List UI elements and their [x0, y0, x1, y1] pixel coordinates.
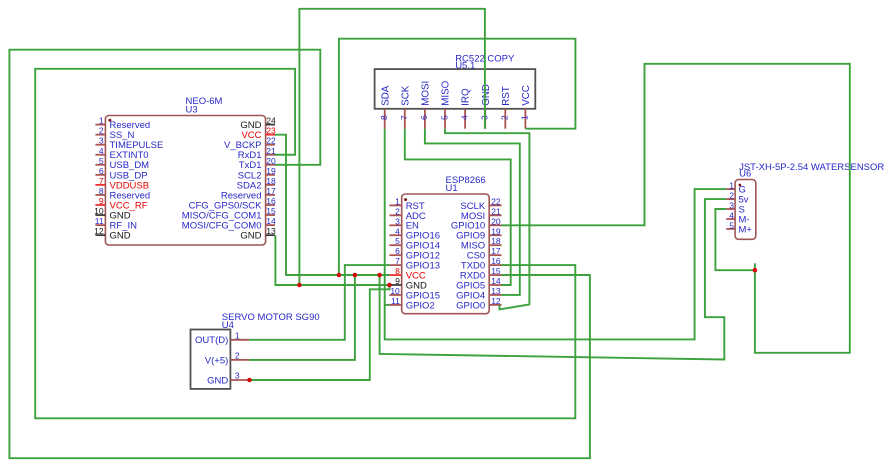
U5.1 pin 7 SCK — [399, 85, 411, 129]
svg-text:7: 7 — [399, 115, 409, 120]
svg-text:11: 11 — [391, 296, 400, 306]
junction VCC net RC522 branch — [337, 273, 342, 278]
svg-text:V(+5): V(+5) — [205, 355, 229, 366]
svg-text:12: 12 — [94, 226, 104, 236]
svg-text:4: 4 — [99, 146, 104, 156]
svg-text:1: 1 — [99, 116, 104, 126]
svg-text:9: 9 — [395, 276, 400, 286]
junction GND net at x299 — [297, 283, 302, 288]
svg-text:21: 21 — [491, 206, 501, 216]
U1 pin 1 RST — [389, 196, 424, 211]
U3 pin 15 MISO/CFG_COM1 — [182, 206, 276, 221]
svg-text:M+: M+ — [739, 224, 753, 235]
wire ESP8266 GPIO10 pin20 to JST S pin3 via right loop — [502, 64, 850, 353]
svg-text:GPIO2: GPIO2 — [406, 300, 435, 311]
U1 pin 14 GPIO5 — [456, 276, 501, 291]
svg-text:SDA: SDA — [380, 85, 391, 106]
U5.1 pin 2 RST — [500, 86, 512, 129]
svg-text:SERVO MOTOR SG90: SERVO MOTOR SG90 — [222, 312, 320, 323]
svg-text:5: 5 — [99, 156, 104, 166]
wire RC522 SDA pin8 to ESP8266 GPIO2 pin11 and JST G pin1 — [385, 129, 727, 340]
svg-text:2: 2 — [500, 115, 510, 120]
U1 pin 8 VCC — [389, 266, 425, 281]
wire ESP8266 GPIO13 pin7 to servo OUT(D) pin1 — [249, 265, 389, 340]
U6 pin 1 marker dot — [739, 184, 742, 187]
wire ESP8266 VCC pin8 to NEO-6M VCC pin23 — [275, 135, 389, 275]
U3 pin 24 GND — [240, 116, 276, 131]
svg-text:5: 5 — [439, 115, 449, 120]
svg-text:1: 1 — [729, 181, 734, 191]
svg-text:RST: RST — [501, 86, 512, 106]
svg-text:22: 22 — [266, 136, 276, 146]
junction VCC net servo branch — [353, 273, 358, 278]
U6 pin 4 M- — [726, 211, 749, 226]
U1 pin 7 GPIO13 — [389, 256, 440, 271]
U1 pin 12 GPIO0 — [456, 296, 501, 311]
svg-text:24: 24 — [266, 116, 276, 126]
svg-text:15: 15 — [266, 206, 276, 216]
U3 pin 13 GND — [240, 226, 276, 241]
svg-text:GND: GND — [110, 231, 131, 242]
U4 pin 1 OUT(D) — [195, 330, 249, 346]
svg-text:7: 7 — [395, 256, 400, 266]
svg-text:GND: GND — [207, 375, 228, 386]
U1 pin 3 EN — [389, 216, 419, 231]
svg-text:19: 19 — [491, 226, 501, 236]
svg-text:3: 3 — [99, 136, 104, 146]
svg-text:GND: GND — [240, 231, 261, 242]
U3 pin 23 VCC — [241, 126, 276, 141]
svg-text:3: 3 — [395, 216, 400, 226]
svg-text:1: 1 — [395, 196, 400, 206]
water sensor connector JST-XH-5P-2.54 U6 — [735, 162, 884, 240]
svg-text:6: 6 — [99, 166, 104, 176]
U3 pin 1 Reserved — [95, 116, 150, 131]
svg-text:21: 21 — [266, 146, 276, 156]
svg-text:17: 17 — [266, 186, 276, 196]
svg-text:8: 8 — [99, 186, 104, 196]
U1 pin 1 marker dot — [404, 198, 407, 201]
U3 pin 11 RF_IN — [95, 216, 137, 231]
svg-text:22: 22 — [491, 196, 501, 206]
U1 pin 22 SCLK — [460, 196, 501, 211]
U1 pin 20 GPIO10 — [451, 216, 502, 231]
svg-text:U6: U6 — [739, 169, 751, 180]
svg-text:16: 16 — [491, 256, 501, 266]
svg-text:10: 10 — [390, 286, 400, 296]
svg-text:18: 18 — [491, 236, 501, 246]
U1 pin 16 TXD0 — [461, 256, 502, 271]
RFID module RC522 COPY U5.1 — [375, 53, 536, 109]
wire stub above JST S junction — [754, 263, 756, 270]
U3 pin 9 VCC_RF — [95, 196, 147, 211]
svg-text:U3: U3 — [186, 104, 198, 115]
svg-text:7: 7 — [99, 176, 104, 186]
U3 pin 10 GND — [94, 206, 131, 221]
svg-text:VCC: VCC — [521, 85, 532, 106]
svg-text:18: 18 — [266, 176, 276, 186]
svg-text:SCK: SCK — [400, 85, 411, 106]
U1 pin 6 GPIO12 — [389, 246, 440, 261]
U1 pin 11 GPIO2 — [389, 296, 434, 311]
wire servo GND pin3 to GND net — [249, 285, 390, 380]
U3 pin 2 SS_N — [95, 126, 134, 141]
U6 pin 5 M+ — [726, 220, 752, 235]
U3 pin 17 Reserved — [221, 186, 276, 201]
U3 pin 18 SDA2 — [237, 176, 276, 191]
U6 pin 3 S — [726, 201, 745, 216]
U1 pin 13 GPIO4 — [456, 286, 501, 301]
svg-text:GPIO0: GPIO0 — [456, 300, 485, 311]
svg-text:16: 16 — [266, 196, 276, 206]
U1 pin 5 GPIO14 — [389, 236, 440, 251]
svg-text:5: 5 — [729, 220, 734, 230]
svg-text:2: 2 — [235, 350, 240, 360]
U4 pin 2 V(+5) — [205, 350, 249, 366]
svg-text:GND: GND — [481, 84, 492, 106]
svg-text:10: 10 — [94, 206, 104, 216]
svg-text:19: 19 — [266, 166, 276, 176]
svg-text:11: 11 — [95, 216, 104, 226]
WiFi module ESP8266 U1 — [402, 175, 490, 314]
U1 pin 15 RXD0 — [460, 266, 502, 281]
svg-text:20: 20 — [491, 216, 501, 226]
U1 pin 18 MISO — [461, 236, 502, 251]
wire VCC net to servo V(+5) pin2 — [249, 275, 355, 360]
junction JST S wire — [753, 268, 758, 273]
svg-text:2: 2 — [99, 126, 104, 136]
U3 pin 5 USB_DM — [95, 156, 149, 171]
wire ESP8266 GND pin9 to NEO-6M GND pin13 — [275, 235, 389, 285]
U3 pin 21 RxD1 — [238, 146, 276, 161]
U1 pin 10 GPIO15 — [389, 286, 440, 301]
U3 pin 16 CFG_GPS0/SCK — [189, 196, 276, 211]
U6 pin 2 5v — [726, 191, 748, 206]
junction VCC net JST branch — [377, 273, 382, 278]
U1 pin 4 GPIO16 — [389, 226, 440, 241]
svg-text:IRQ: IRQ — [461, 88, 472, 106]
junction servo GND pin3 — [247, 378, 252, 383]
U1 pin 21 MOSI — [461, 206, 502, 221]
svg-text:4: 4 — [395, 226, 400, 236]
U1 pin 17 CS0 — [467, 246, 502, 261]
svg-text:13: 13 — [266, 226, 276, 236]
svg-text:13: 13 — [491, 286, 501, 296]
U5.1 pin 8 SDA — [379, 85, 391, 129]
wire RC522 VCC pin1 to VCC net loop — [339, 39, 576, 275]
U3 pin 1 marker dot — [108, 119, 111, 122]
svg-text:17: 17 — [491, 246, 501, 256]
wire RC522 MISO pin5 to ESP8266 GPIO0 pin12 — [445, 129, 529, 310]
U6 pin 1 G — [726, 181, 746, 196]
wire RC522 MOSI pin6 to ESP8266 GPIO4 pin13 — [425, 129, 520, 295]
svg-text:3: 3 — [235, 371, 240, 381]
U3 pin 7 VDDUSB — [95, 176, 149, 191]
U3 pin 19 SCL2 — [238, 166, 276, 181]
svg-text:8: 8 — [395, 266, 400, 276]
wire branch SDA vertical to ESP8266 GPIO2 pin11 — [385, 304, 390, 306]
svg-text:MISO: MISO — [441, 80, 452, 105]
wire NEO-6M TxD1 pin20 to ESP8266 RXD0 pin15 via outer left loop — [9, 50, 590, 459]
U1 pin 9 GND — [389, 276, 427, 291]
U3 pin 3 TIMEPULSE — [95, 136, 163, 151]
wire VCC net to JST 5v pin2 — [380, 199, 727, 359]
svg-text:JST-XH-5P-2.54 WATERSENSOR: JST-XH-5P-2.54 WATERSENSOR — [739, 162, 884, 173]
svg-text:1: 1 — [520, 115, 530, 120]
U3 pin 20 TxD1 — [239, 156, 276, 171]
svg-text:4: 4 — [729, 211, 734, 221]
svg-text:OUT(D): OUT(D) — [195, 335, 228, 346]
svg-text:12: 12 — [491, 296, 501, 306]
U5.1 pin 5 MISO — [439, 80, 451, 128]
U5.1 pin 6 MOSI — [419, 81, 431, 129]
U5.1 pin 1 VCC — [520, 85, 532, 129]
svg-text:14: 14 — [491, 276, 501, 286]
U4 pin 3 GND — [207, 371, 249, 387]
wire RC522 GND pin3 to ESP8266 GND net via top loop — [299, 9, 485, 285]
svg-text:U1: U1 — [446, 183, 458, 194]
U3 pin 12 GND — [94, 226, 131, 241]
servo motor SG90 U4 — [191, 312, 320, 389]
svg-text:15: 15 — [491, 266, 501, 276]
svg-text:4: 4 — [459, 115, 469, 120]
wire RC522 SCK pin7 to ESP8266 GPIO5 pin14 — [405, 129, 511, 285]
svg-text:9: 9 — [99, 196, 104, 206]
U5.1 pin 3 GND — [480, 84, 492, 129]
U3 pin 22 V_BCKP — [224, 136, 276, 151]
U3 pin 6 USB_DP — [95, 166, 147, 181]
U3 pin 4 EXTINT0 — [95, 146, 148, 161]
svg-text:6: 6 — [419, 115, 429, 120]
svg-text:3: 3 — [729, 201, 734, 211]
U5.1 pin 4 IRQ — [459, 88, 471, 129]
svg-text:1: 1 — [235, 330, 240, 340]
U3 pin 8 Reserved — [95, 186, 150, 201]
svg-text:20: 20 — [266, 156, 276, 166]
U1 pin 19 GPIO9 — [456, 226, 501, 241]
svg-text:14: 14 — [266, 216, 276, 226]
svg-text:8: 8 — [379, 115, 389, 120]
wire NEO-6M RxD1 pin21 to ESP8266 TXD0 pin16 via left loop — [35, 69, 575, 419]
svg-text:MOSI: MOSI — [421, 81, 432, 106]
U1 pin 2 ADC — [389, 206, 425, 221]
junction GND net at ESP pin9 — [387, 283, 392, 288]
svg-text:5: 5 — [395, 236, 400, 246]
U3 pin 14 MOSI/CFG_COM0 — [182, 216, 276, 231]
svg-text:23: 23 — [266, 126, 276, 136]
svg-text:6: 6 — [395, 246, 400, 256]
svg-text:2: 2 — [729, 191, 734, 201]
GPS module NEO-6M U3 — [105, 96, 265, 245]
svg-text:2: 2 — [395, 206, 400, 216]
